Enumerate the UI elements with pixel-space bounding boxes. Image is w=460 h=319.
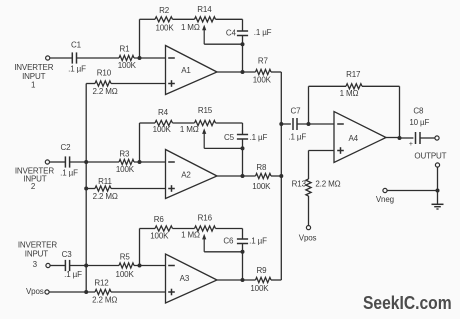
svg-text:R16: R16 bbox=[198, 213, 213, 222]
svg-text:INVERTER: INVERTER bbox=[14, 63, 53, 72]
svg-text:1 MΩ: 1 MΩ bbox=[181, 231, 200, 240]
svg-text:R2: R2 bbox=[159, 6, 170, 15]
svg-text:A3: A3 bbox=[180, 274, 190, 283]
svg-text:R13: R13 bbox=[292, 180, 307, 189]
svg-text:C4: C4 bbox=[226, 29, 237, 38]
svg-text:2.2 MΩ: 2.2 MΩ bbox=[92, 87, 117, 96]
svg-text:100K: 100K bbox=[116, 270, 135, 279]
svg-text:2.2 MΩ: 2.2 MΩ bbox=[93, 192, 118, 201]
svg-text:INVERTER: INVERTER bbox=[18, 240, 57, 249]
svg-text:1 MΩ: 1 MΩ bbox=[180, 125, 199, 134]
svg-text:3: 3 bbox=[33, 260, 38, 269]
svg-text:R15: R15 bbox=[198, 106, 213, 115]
svg-text:100K: 100K bbox=[153, 125, 172, 134]
svg-text:R8: R8 bbox=[256, 163, 267, 172]
svg-text:R7: R7 bbox=[258, 57, 269, 66]
svg-text:R10: R10 bbox=[97, 69, 112, 78]
svg-text:C6: C6 bbox=[223, 237, 234, 246]
svg-text:A1: A1 bbox=[181, 66, 191, 75]
svg-text:10 µF: 10 µF bbox=[409, 118, 429, 127]
svg-text:.1 µF: .1 µF bbox=[64, 270, 82, 279]
svg-text:R9: R9 bbox=[257, 266, 268, 275]
svg-text:.1 µF: .1 µF bbox=[60, 169, 78, 178]
svg-text:A4: A4 bbox=[348, 134, 358, 143]
svg-text:100K: 100K bbox=[118, 61, 137, 70]
svg-text:OUTPUT: OUTPUT bbox=[414, 152, 446, 161]
svg-text:R3: R3 bbox=[119, 150, 130, 159]
svg-text:100K: 100K bbox=[253, 76, 272, 85]
svg-text:.1 µF: .1 µF bbox=[254, 28, 272, 37]
svg-text:C2: C2 bbox=[61, 143, 72, 152]
svg-text:Vneg: Vneg bbox=[376, 195, 394, 204]
svg-text:R12: R12 bbox=[94, 279, 109, 288]
svg-text:R14: R14 bbox=[197, 5, 212, 14]
svg-text:R11: R11 bbox=[98, 177, 112, 186]
svg-text:100K: 100K bbox=[150, 232, 169, 241]
svg-text:1 MΩ: 1 MΩ bbox=[181, 23, 200, 32]
svg-text:1: 1 bbox=[31, 81, 36, 90]
svg-text:R17: R17 bbox=[346, 70, 361, 79]
svg-text:100K: 100K bbox=[250, 284, 269, 293]
svg-text:C1: C1 bbox=[71, 41, 82, 50]
svg-text:100K: 100K bbox=[252, 182, 271, 191]
svg-text:Vpos: Vpos bbox=[299, 233, 317, 242]
svg-text:INPUT: INPUT bbox=[25, 249, 49, 258]
svg-text:.1 µF: .1 µF bbox=[250, 133, 268, 142]
svg-text:100K: 100K bbox=[116, 165, 135, 174]
svg-text:R4: R4 bbox=[158, 108, 169, 117]
svg-text:SeekIC.com: SeekIC.com bbox=[363, 292, 452, 313]
svg-text:100K: 100K bbox=[155, 23, 174, 32]
svg-text:1 MΩ: 1 MΩ bbox=[340, 89, 359, 98]
svg-text:.1 µF: .1 µF bbox=[288, 132, 306, 141]
svg-text:.1 µF: .1 µF bbox=[68, 64, 86, 73]
svg-text:2: 2 bbox=[31, 182, 36, 191]
svg-text:R5: R5 bbox=[120, 253, 131, 262]
svg-text:A2: A2 bbox=[181, 171, 191, 180]
svg-text:C7: C7 bbox=[291, 107, 302, 116]
svg-text:.1 µF: .1 µF bbox=[249, 237, 267, 246]
svg-text:C3: C3 bbox=[62, 250, 73, 259]
svg-text:2.2 MΩ: 2.2 MΩ bbox=[92, 296, 117, 305]
svg-text:C5: C5 bbox=[224, 133, 235, 142]
svg-text:+: + bbox=[409, 141, 413, 148]
svg-text:R6: R6 bbox=[154, 215, 165, 224]
svg-text:R1: R1 bbox=[120, 45, 131, 54]
svg-text:2.2 MΩ: 2.2 MΩ bbox=[315, 180, 340, 189]
svg-text:Vpos: Vpos bbox=[26, 287, 44, 296]
svg-text:C8: C8 bbox=[413, 107, 424, 116]
